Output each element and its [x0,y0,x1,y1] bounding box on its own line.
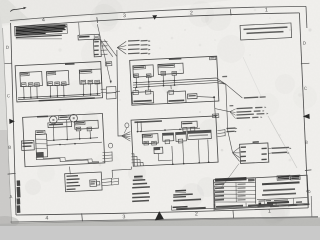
memory block outline [15,62,102,102]
zone tick bottom 2/1 [232,211,235,219]
svg-text:4: 4 [45,216,48,222]
alu sub-block [142,134,158,146]
motor circle 2 [70,114,78,122]
inner border left [11,23,16,215]
wire fan1 down to J1 [226,84,233,153]
processor verticals from top [137,121,139,131]
fold mark triangle bottom [155,211,164,220]
outer border bottom [11,217,319,222]
register sub-block 2 [176,132,187,143]
controller staircase wires [36,157,99,163]
memory address bus [18,94,101,98]
svg-text:D: D [306,190,311,193]
processor gate wires [157,154,159,161]
servo logic sub-box [48,122,72,128]
pencil diagonal to title block [222,164,240,188]
svg-text:3: 3 [122,214,125,220]
gate sub-box [154,147,163,153]
zone tick right B/A [305,169,312,172]
clock box [35,130,45,134]
title text line 3 [262,193,296,196]
zone tick right D/C [301,62,310,65]
power bundle bracket 2 [112,177,119,180]
memory sub-block RAM1 [20,71,43,87]
zone tick left B/A [8,172,16,175]
paper bottom edge [11,217,318,223]
title block FSCM cells [277,175,300,181]
processor exit labels [226,127,235,129]
memory sub-block RAM2 [46,71,69,87]
register sub-block 1 [162,133,174,144]
osc sub-block [181,121,197,131]
regulator box [90,180,97,187]
title block outline [213,174,309,209]
receiver bus to lower boxes wires [135,87,137,91]
zone tick top 2/1 [229,9,232,15]
sequencer decode box [21,140,34,150]
scale sheet row [257,205,297,208]
svg-text:2: 2 [190,10,193,16]
memory caption text [39,97,95,101]
outer border top [10,6,306,20]
svg-text:1: 1 [268,209,271,215]
svg-text:C: C [7,93,10,98]
receiver tag box [210,56,216,59]
processor block outline [131,116,218,166]
controller exit bracket [103,151,113,154]
inner border bottom [16,208,308,215]
controller bus drops [52,124,55,140]
svg-text:1: 1 [265,7,268,13]
gate box [187,94,197,99]
zone tick bottom 4/3 [81,213,84,221]
title text company [262,181,300,185]
entry fan wires [122,132,131,136]
receiver pad drop wires [135,78,137,88]
connector J1P1 label [253,141,259,143]
wire to power box [69,167,72,175]
svg-text:C: C [304,86,307,91]
net oval marker A [125,123,129,128]
notes caption line underlined [16,35,62,42]
control store wide sub-block [187,130,211,140]
connector P2 body [93,40,101,57]
svg-text:4: 4 [42,17,45,23]
controller bus wire 2 [47,142,102,145]
notes list lines [133,179,146,181]
svg-text:2: 2 [195,211,198,217]
memory block tag box [106,62,112,66]
motor circle 1 [49,116,57,124]
control box between circles [58,115,69,120]
reference stamp line 3 [173,196,186,198]
paper left edge [3,28,12,223]
zone tick left D/C [5,62,12,65]
fan2 bracket [229,105,233,106]
connector stub wires [101,41,108,43]
inner border right [299,13,308,208]
reference date stamp [173,199,201,202]
file name strip [171,199,310,211]
connector J1P1 body [240,143,269,164]
memory sub-block PROM [79,69,101,85]
serial label rows 2-5 [236,107,262,110]
serial channel labels top [128,39,148,42]
reference stamp name underlined [175,190,186,193]
driver sub-block [74,120,98,131]
reference stamp line 2 [173,193,193,195]
long vertical wire to processor block [117,50,122,136]
fold mark triangle left [9,119,15,124]
svg-text:3: 3 [123,13,126,19]
inner border top [14,13,299,27]
receiver sub-block B [158,63,184,76]
serial out wire right [226,84,243,98]
svg-text:B: B [305,140,308,145]
wire branch to fan2 [215,109,230,112]
wire from top border to label box [78,23,81,36]
faint pencil scratch 2 [243,57,261,96]
receiver internal bus [133,78,217,83]
processor internal bus [138,128,201,132]
mux tall box [35,134,48,157]
serial label row 1 [244,96,266,98]
processor exit bracket [217,129,225,132]
svg-text:B: B [8,145,11,150]
memory stub box [106,86,116,99]
controller block outline [23,113,105,167]
power riser wire [112,167,131,178]
svg-text:D: D [6,45,9,50]
zone tick top 4/3 [96,17,99,23]
controller bus wire 1 [47,138,99,141]
fan tag text [222,76,227,78]
wire gate junction down [214,97,215,117]
processor staircase entry [131,154,134,167]
power distribution box [65,172,102,192]
gate output wire [197,96,214,99]
fold mark triangle top [152,15,157,20]
memory stub wires [101,88,107,90]
processor down wires [171,146,174,164]
connector right stubs and labels [268,147,271,149]
connector left fan [233,147,240,153]
receiver sub-block A [133,65,154,78]
title text line 2 [263,188,295,191]
power bundle bracket 1 [102,178,112,181]
general notes text block [14,24,67,36]
receiver bus exit fan [217,78,226,84]
regulator pad [96,182,99,185]
receiver block outline [130,56,219,105]
cable bundle diagonals [101,40,113,57]
fold mark triangle right [303,114,310,119]
faint pencil scratch 1 [268,116,297,168]
processor tag box [213,114,219,118]
net oval marker B [108,143,112,148]
clock gen sub-block [167,90,186,104]
memory bus drop wires [23,87,25,99]
label box U3 [78,34,99,41]
pen arrow mark top-left [10,8,24,12]
leader line with arrowhead [97,24,111,83]
servo note box [240,23,292,40]
svg-text:D: D [303,40,306,45]
revision strip vertical text [15,180,21,213]
notes list header [134,175,143,178]
outer border right [305,6,308,28]
svg-text:A: A [9,194,12,199]
signal fan bracket [117,41,126,47]
document number row [257,197,308,206]
title block left edge [213,180,216,211]
battery timer sub-block [132,90,154,104]
